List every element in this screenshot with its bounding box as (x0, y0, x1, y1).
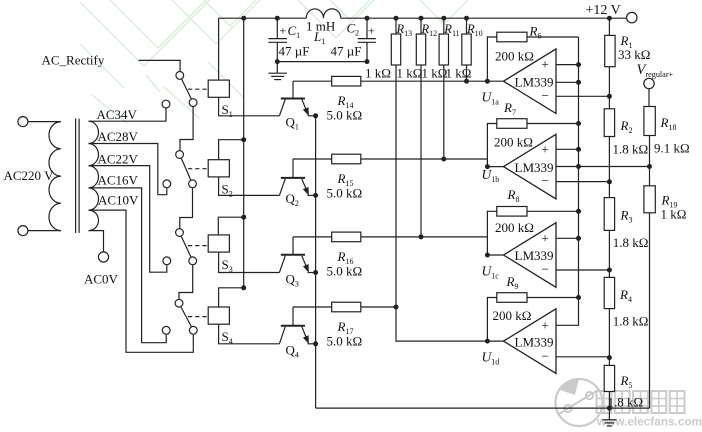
resistor R3 (604, 198, 614, 231)
svg-text:1 kΩ: 1 kΩ (365, 66, 391, 81)
resistor R13 (391, 34, 400, 65)
label R1 (620, 33, 633, 50)
node top rail junctions (241, 16, 612, 21)
label U1b (482, 167, 500, 184)
label R19 value (661, 207, 687, 222)
label AC16V (98, 173, 139, 188)
svg-text:47 µF: 47 µF (279, 44, 310, 59)
wire R12 top (420, 18, 422, 34)
label R4 value (613, 314, 649, 329)
transformer primary winding (49, 122, 61, 231)
relay coil S4 (208, 307, 229, 324)
label S3 (222, 257, 233, 274)
label R2 value (613, 142, 649, 157)
label U1b plus pin (541, 142, 549, 157)
svg-text:AC28V: AC28V (98, 129, 139, 144)
svg-text:+: + (541, 231, 549, 246)
svg-text:+: + (368, 24, 375, 38)
svg-text:LM339: LM339 (515, 334, 554, 349)
resistor R18 (644, 107, 655, 136)
svg-text:1 kΩ: 1 kΩ (397, 66, 423, 81)
svg-text:AC22V: AC22V (98, 151, 139, 166)
wire C1-C2 bottom link (275, 59, 370, 64)
transformer core (76, 119, 80, 233)
op-amp U1d (504, 309, 557, 374)
wire S1 to Q1 collector (219, 97, 280, 116)
wire R19 top (649, 167, 651, 186)
label U1d minus pin (541, 348, 549, 363)
wire AC22V tap (89, 166, 167, 273)
resistor R6 (497, 32, 527, 42)
svg-text:33 kΩ: 33 kΩ (618, 47, 650, 62)
label R11 (443, 22, 459, 38)
resistor R1 (605, 35, 615, 66)
label AC22V (98, 151, 139, 166)
svg-text:200 kΩ: 200 kΩ (494, 134, 533, 149)
svg-text:AC34V: AC34V (97, 107, 138, 122)
label U1b LM339 (515, 160, 554, 175)
wire U1b stub to R18 junction (556, 164, 652, 169)
resistor R8 (497, 207, 527, 217)
wire primary bottom (28, 230, 61, 232)
svg-text:1 kΩ: 1 kΩ (422, 66, 448, 81)
label R14 (337, 93, 354, 110)
label U1d LM339 (515, 334, 554, 349)
capacitor C1 (268, 18, 287, 61)
label R4 (619, 287, 632, 304)
switch K2 contacts (163, 151, 197, 188)
resistor R15 (332, 154, 361, 164)
svg-text:−: − (541, 173, 549, 188)
svg-text:1.8 kΩ: 1.8 kΩ (608, 395, 644, 410)
relay coil S3 (208, 235, 229, 252)
wire R9 right (527, 297, 579, 299)
label U1a (482, 90, 500, 107)
label R13 (396, 22, 413, 38)
label R18 (660, 115, 677, 132)
label Q4 (286, 343, 299, 360)
label L1 value (306, 18, 335, 33)
svg-text:AC_Rectify: AC_Rectify (42, 53, 105, 68)
wire R6 right (527, 36, 579, 38)
wire Q3 base row (293, 236, 332, 238)
label AC10V (98, 193, 139, 208)
label V regular+ (637, 62, 674, 79)
wire S4 to Q4 collector (219, 324, 280, 344)
resistor R5 (604, 365, 614, 391)
svg-text:5.0 kΩ: 5.0 kΩ (327, 334, 363, 349)
node Q3 emitter junction (313, 270, 318, 275)
wire R1 top (608, 18, 610, 35)
wire S2 to Q2 collector (219, 177, 280, 196)
resistor R2 (604, 109, 614, 137)
label AC28V (98, 129, 139, 144)
svg-text:200 kΩ: 200 kΩ (495, 220, 534, 235)
wire SW3 to SW4 (179, 265, 193, 299)
wire SW1 to SW2 (180, 107, 193, 150)
label R12 (421, 22, 438, 38)
svg-text:1.8 kΩ: 1.8 kΩ (613, 314, 649, 329)
label Q3 (286, 271, 299, 288)
wire AC16V tap (89, 188, 167, 343)
switch K4 actuation dashed link (188, 316, 208, 318)
svg-text:200 kΩ: 200 kΩ (493, 308, 532, 323)
wire R7 right (527, 123, 579, 125)
wire U1c plus input (556, 236, 581, 241)
label R12 value (397, 66, 423, 81)
svg-text:5.0 kΩ: 5.0 kΩ (327, 108, 363, 123)
terminal V regular+ (644, 78, 654, 88)
label R1 value (618, 47, 650, 62)
svg-text:1.8 kΩ: 1.8 kΩ (613, 142, 649, 157)
relay coil S1 (208, 80, 229, 97)
resistor R4 (604, 277, 614, 308)
capacitor C2 (358, 18, 376, 61)
label U1d (482, 349, 500, 366)
label C1 (280, 23, 301, 40)
resistor R11 (439, 34, 448, 65)
svg-text:1.8 kΩ: 1.8 kΩ (613, 235, 649, 250)
wire R7 left (487, 124, 496, 167)
label R17 (337, 319, 354, 336)
label U1a LM339 (515, 74, 554, 89)
label R9 (506, 274, 519, 291)
wire ground rail (316, 407, 650, 409)
wire R4-R5 (607, 309, 612, 366)
label C2 value (331, 44, 362, 59)
wire AC28V tap (89, 144, 167, 195)
svg-text:−: − (541, 88, 549, 103)
label R16 value (327, 263, 363, 278)
label U1c minus pin (541, 262, 549, 277)
svg-text:200 kΩ: 200 kΩ (495, 49, 534, 64)
terminal AC220 primary top (18, 117, 28, 127)
label R17 value (327, 334, 363, 349)
wire S2 coil drop (219, 137, 247, 160)
wire Q1 base row (293, 80, 332, 82)
switch K2 arm (181, 158, 191, 180)
svg-text:+: + (280, 24, 287, 38)
switch K4 arm (181, 307, 192, 327)
resistor R17 (332, 302, 361, 312)
label R6 value (495, 49, 534, 64)
terminal AC220 primary bottom (18, 226, 28, 236)
svg-text:1 kΩ: 1 kΩ (446, 66, 472, 81)
op-amp U1c (504, 223, 557, 288)
label Q1 (286, 115, 299, 132)
label R13 value (365, 66, 391, 81)
wire relay supply bus (243, 18, 245, 288)
label R15 value (327, 186, 363, 201)
wire R9 left (487, 298, 496, 342)
wire Q4 base row (293, 306, 332, 308)
svg-text:1 kΩ: 1 kΩ (661, 207, 687, 222)
wire R8 left (487, 211, 496, 255)
op-amp U1b (504, 134, 557, 199)
wire R13 top (395, 18, 397, 34)
svg-text:9.1 kΩ: 9.1 kΩ (654, 141, 690, 156)
wire R5 bottom (607, 392, 612, 411)
label R11 value (422, 66, 448, 81)
label U1b minus pin (541, 173, 549, 188)
label R7 (503, 100, 516, 117)
wire R2-R3 (607, 137, 612, 198)
relay coil S2 (208, 160, 229, 177)
label AC34V (97, 107, 138, 122)
label R2 (620, 118, 633, 135)
label R5 (620, 373, 633, 390)
wire U1a plus input (556, 62, 581, 67)
svg-text:+12 V: +12 V (586, 3, 621, 18)
svg-text:47 µF: 47 µF (331, 44, 362, 59)
wire AC10V tap (89, 210, 194, 352)
wire SW2 to SW3 (180, 188, 193, 228)
wire R12 bottom (420, 65, 422, 237)
label R3 (620, 208, 633, 225)
label R14 value (327, 108, 363, 123)
label S2 (222, 182, 233, 199)
switch K3 contacts (163, 229, 197, 265)
wire R3-R4 (607, 230, 612, 277)
svg-text:+: + (541, 318, 549, 333)
node Q4 emitter junction (313, 341, 318, 346)
wire U1a output-level stub (556, 80, 581, 85)
wire feedback bus (576, 37, 581, 300)
label U1d plus pin (541, 318, 549, 333)
svg-text:+: + (541, 142, 549, 157)
label C1 value (279, 44, 310, 59)
label R5 value (608, 395, 644, 410)
svg-text:−: − (541, 262, 549, 277)
wire AC34V tap (89, 108, 167, 121)
wire U1a minus input (556, 95, 609, 97)
switch K3 arm (181, 236, 191, 257)
label R10 (466, 22, 483, 38)
wire S3 to Q3 collector (219, 252, 280, 272)
wire emitter ground bus (315, 116, 317, 408)
switch K1 contacts (162, 72, 197, 109)
node Q1 emitter junction (313, 113, 318, 118)
svg-text:AC16V: AC16V (98, 173, 139, 188)
resistor R10 (462, 34, 471, 65)
inductor L1 (306, 9, 341, 18)
wire R11 top (443, 18, 445, 34)
label R15 (337, 171, 354, 188)
wire AC0V lead (89, 231, 104, 252)
resistor R7 (497, 119, 527, 129)
label R10 value (446, 66, 472, 81)
wire S1 coil drop (218, 18, 220, 80)
label U1a plus pin (541, 57, 549, 72)
wire R19 to ground rail (649, 213, 651, 408)
label U1c (482, 264, 500, 281)
label AC_Rectify (42, 53, 105, 68)
wire U1c minus input (556, 269, 609, 271)
wire R6 left (487, 37, 496, 81)
resistor R16 (332, 232, 361, 242)
svg-text:AC10V: AC10V (98, 193, 139, 208)
wire R16 to U1c output (361, 234, 504, 257)
wire R11 bottom (443, 65, 445, 159)
node Q2 emitter junction (313, 193, 318, 198)
svg-text:5.0 kΩ: 5.0 kΩ (327, 186, 363, 201)
label L1 (313, 29, 325, 46)
switch K1 actuation dashed link (188, 88, 208, 90)
label R7 value (494, 134, 533, 149)
label R16 (337, 249, 354, 266)
wire S4 coil drop (219, 285, 247, 307)
wire R18 bottom (649, 136, 651, 167)
wire R10 top (466, 18, 468, 34)
resistor R9 (497, 293, 527, 303)
label C2 (347, 20, 375, 37)
switch K2 actuation dashed link (188, 168, 208, 170)
label R19 (661, 192, 678, 209)
switch K1 arm (182, 79, 192, 99)
label AC0V (84, 272, 119, 287)
label R8 (507, 187, 520, 204)
resistor R12 (416, 34, 425, 65)
resistor R14 (332, 76, 361, 86)
label Q2 (286, 191, 299, 208)
wire U1d minus input (556, 356, 609, 358)
svg-text:5.0 kΩ: 5.0 kΩ (327, 263, 363, 278)
label R6 (529, 23, 542, 40)
label AC220 V (4, 168, 55, 183)
ground C1 (268, 62, 287, 80)
op-amp U1a (504, 49, 557, 114)
wire U1b minus input (556, 181, 609, 183)
wire +12V top rail (218, 17, 626, 19)
wire primary top (28, 121, 61, 123)
wire R8 right (527, 210, 579, 212)
label R9 value (493, 308, 532, 323)
wire Q2 base row (293, 158, 332, 160)
wire S3 coil drop (218, 215, 246, 235)
wire U1d plus input (556, 298, 579, 326)
label R8 value (495, 220, 534, 235)
label R3 value (613, 235, 649, 250)
terminal AC0V (98, 252, 108, 262)
wire Vreg to R18 (648, 89, 650, 107)
wire AC_Rectify lead (139, 60, 181, 71)
svg-text:AC220 V: AC220 V (4, 168, 55, 183)
svg-text:AC0V: AC0V (84, 272, 119, 287)
transistor Q1 (279, 81, 315, 116)
label U1c plus pin (541, 231, 549, 246)
svg-text:+: + (541, 57, 549, 72)
wire R15 to U1b output (361, 157, 504, 170)
transistor Q2 (279, 159, 315, 195)
ground main (602, 408, 616, 426)
label R18 value (654, 141, 690, 156)
switch K3 actuation dashed link (188, 245, 208, 247)
wire R10 bottom (466, 65, 468, 81)
transformer secondary winding (89, 121, 99, 230)
wire R17 to U1d output (361, 305, 504, 344)
label S4 (222, 329, 233, 346)
svg-text:−: − (541, 348, 549, 363)
label S1 (222, 102, 233, 119)
label U1c LM339 (515, 248, 554, 263)
transistor Q3 (279, 237, 315, 273)
wire R14 to U1a output (361, 79, 504, 84)
label U1a minus pin (541, 88, 549, 103)
resistor R19 (644, 186, 655, 213)
switch K4 contacts (162, 299, 197, 334)
transistor Q4 (279, 307, 315, 344)
terminal +12V (586, 3, 638, 23)
wire U1b plus input (556, 147, 581, 152)
wire R13 bottom (395, 65, 397, 307)
wire R1-R2 (607, 67, 612, 109)
